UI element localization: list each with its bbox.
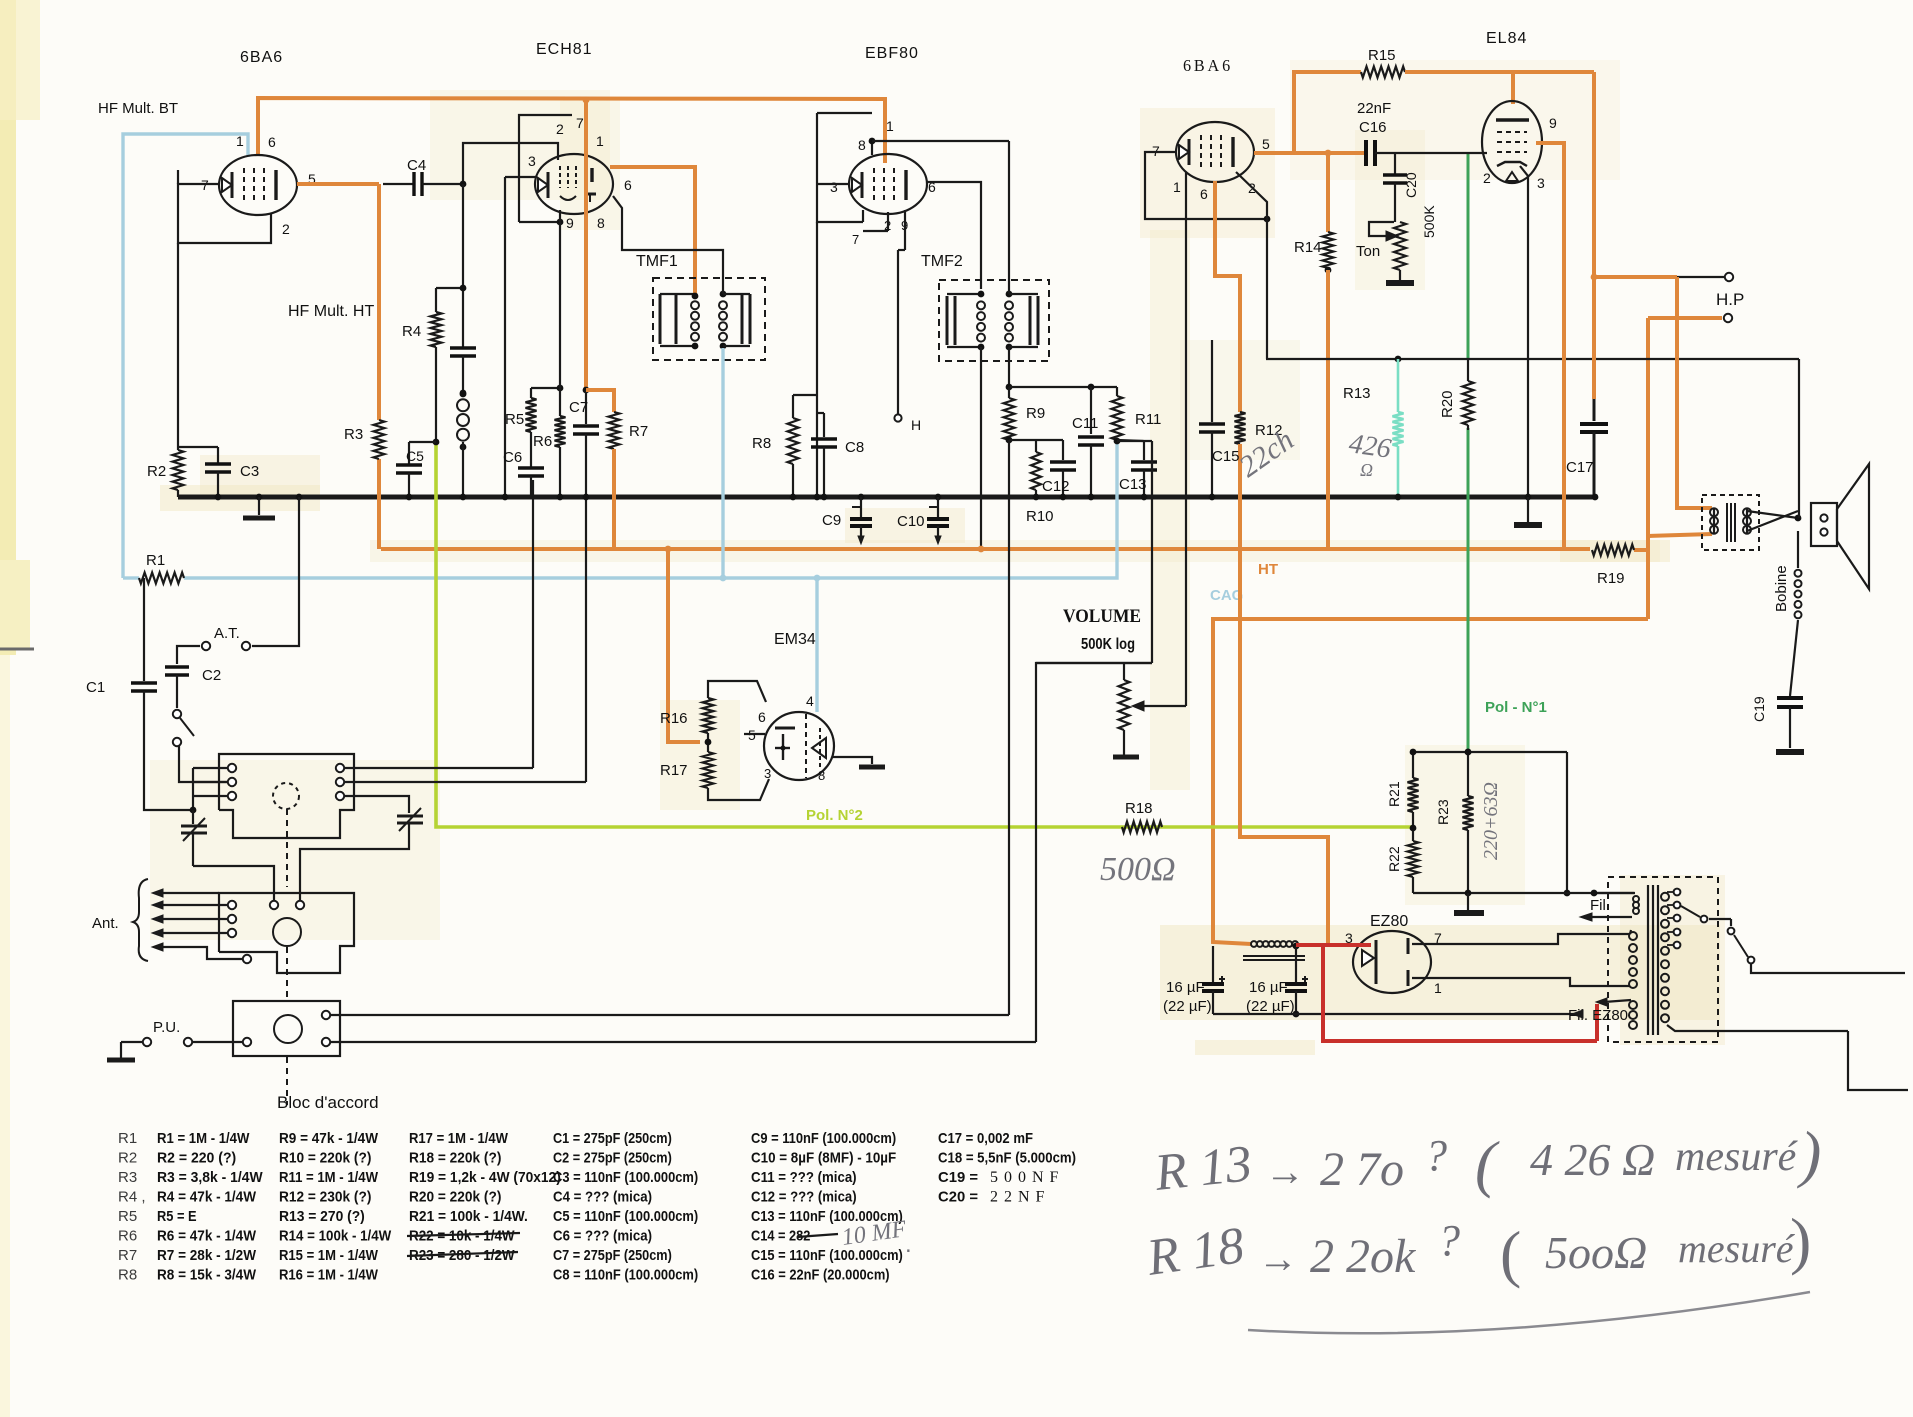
svg-text:C10: C10 xyxy=(897,513,925,530)
svg-text:3: 3 xyxy=(528,153,536,169)
svg-text:C1: C1 xyxy=(86,679,105,696)
svg-text:C18 = 5,5nF (5.000cm): C18 = 5,5nF (5.000cm) xyxy=(938,1150,1076,1167)
svg-text:500K log: 500K log xyxy=(1081,636,1135,653)
mains selector switch xyxy=(1681,906,1700,917)
resistor R4 xyxy=(436,287,463,289)
svg-text:R6: R6 xyxy=(533,433,552,450)
svg-text:C5 = 110nF (100.000cm): C5 = 110nF (100.000cm) xyxy=(553,1208,698,1225)
capacitor C11 xyxy=(1090,387,1092,434)
svg-text:R1: R1 xyxy=(146,552,165,569)
resistor R18 xyxy=(1122,822,1162,833)
voice coil Bobine xyxy=(1797,531,1799,568)
svg-text:C9 = 110nF (100.000cm): C9 = 110nF (100.000cm) xyxy=(751,1130,896,1147)
svg-text:C16 = 22nF (20.000cm): C16 = 22nF (20.000cm) xyxy=(751,1267,890,1284)
block1 left pins xyxy=(228,764,236,772)
svg-text:EBF80: EBF80 xyxy=(865,45,919,62)
TMF2 primary coil xyxy=(977,301,985,309)
wire TMF2 primary bottom to HT xyxy=(980,347,982,549)
svg-text:R10 = 220k (?): R10 = 220k (?) xyxy=(279,1150,371,1167)
wire blue to EM34 pin4 xyxy=(815,578,818,712)
svg-text:R7 = 28k - 1/2W: R7 = 28k - 1/2W xyxy=(157,1247,257,1264)
strikethrough R22 R23 C14 xyxy=(407,1233,520,1236)
volume pot xyxy=(1036,662,1152,664)
svg-text:C4: C4 xyxy=(407,157,426,174)
svg-text:6: 6 xyxy=(624,177,632,193)
svg-text:C17: C17 xyxy=(1566,459,1594,476)
svg-text:R15: R15 xyxy=(1368,47,1396,64)
capacitor C5 xyxy=(409,441,436,443)
svg-text:R17 = 1M - 1/4W: R17 = 1M - 1/4W xyxy=(409,1130,509,1147)
Ant brace xyxy=(133,879,148,961)
wire C1 bottom to tuner xyxy=(144,691,193,810)
resistor R22 xyxy=(1408,841,1419,877)
bottom rail of caps xyxy=(1213,1013,1580,1015)
svg-text:Fil.: Fil. xyxy=(1590,897,1610,914)
svg-text:R22: R22 xyxy=(1386,846,1402,872)
svg-text:ECH81: ECH81 xyxy=(536,41,593,58)
wire green to R21 rail xyxy=(1465,749,1472,756)
svg-text:C7 = 275pF (250cm): C7 = 275pF (250cm) xyxy=(553,1247,672,1264)
wire to block2 center pins xyxy=(193,866,274,900)
svg-text:R9 = 47k - 1/4W: R9 = 47k - 1/4W xyxy=(279,1130,379,1147)
ground bus xyxy=(178,495,1597,500)
capacitor C19 xyxy=(1777,696,1803,700)
Pol N1 green wire xyxy=(1467,153,1470,360)
svg-text:R6 = 47k - 1/4W: R6 = 47k - 1/4W xyxy=(157,1228,257,1245)
svg-text:?: ? xyxy=(1425,1131,1447,1180)
wire EM34 pin8 ground xyxy=(832,757,872,764)
svg-text:3: 3 xyxy=(1537,175,1545,191)
wire ECH81 grid from C4 xyxy=(463,143,558,184)
svg-text:?: ? xyxy=(1438,1216,1460,1265)
svg-text:C1 = 275pF (250cm): C1 = 275pF (250cm) xyxy=(553,1130,672,1147)
svg-text:R16 = 1M - 1/4W: R16 = 1M - 1/4W xyxy=(279,1267,379,1284)
svg-text:R12 = 230k (?): R12 = 230k (?) xyxy=(279,1189,371,1206)
svg-text:R5: R5 xyxy=(118,1208,137,1225)
output transformer primary coil xyxy=(1710,508,1718,516)
svg-text:mesuré: mesuré xyxy=(1678,1226,1796,1271)
svg-text:2 7o: 2 7o xyxy=(1320,1143,1404,1196)
svg-text:7: 7 xyxy=(576,115,584,131)
resistor R5 xyxy=(530,388,532,398)
svg-text:): ) xyxy=(1796,1118,1821,1189)
svg-text:9: 9 xyxy=(566,215,574,231)
oscillator coil xyxy=(460,390,467,397)
svg-text:500Ω: 500Ω xyxy=(1100,851,1176,888)
resistor R16 xyxy=(707,733,709,742)
wire pin9 column xyxy=(559,222,561,416)
right side down xyxy=(1566,752,1568,893)
tone pot ground xyxy=(1399,270,1401,280)
tube 6BA6 first xyxy=(219,155,297,215)
block1 right pins xyxy=(336,764,344,772)
svg-text:Bloc d'accord: Bloc d'accord xyxy=(277,1093,379,1112)
svg-text:8: 8 xyxy=(818,768,825,783)
wire TMF2 secondary top to EBF80 diode xyxy=(1008,141,1010,294)
capacitor C2 xyxy=(165,665,189,668)
output transformer secondary coil xyxy=(1743,508,1751,516)
svg-text:R14: R14 xyxy=(1294,239,1322,256)
transformer winding Fil xyxy=(1594,892,1634,894)
svg-text:R3 = 3,8k - 1/4W: R3 = 3,8k - 1/4W xyxy=(157,1169,263,1186)
PU ground xyxy=(120,1042,122,1058)
svg-text:R8: R8 xyxy=(118,1267,137,1284)
capacitor C15 xyxy=(1211,340,1213,422)
svg-text:C4 = ??? (mica): C4 = ??? (mica) xyxy=(553,1189,652,1206)
transformer winding HV xyxy=(1629,932,1637,940)
resistor R17 xyxy=(707,742,709,752)
highlight patches xyxy=(1140,108,1275,238)
electrolytic C first 16uF xyxy=(1212,946,1214,982)
svg-text:C20 =: C20 = xyxy=(938,1189,978,1206)
svg-text:220+63Ω: 220+63Ω xyxy=(1480,782,1502,860)
trimmer cap 1 xyxy=(192,810,194,824)
transformer mains winding xyxy=(1661,893,1669,901)
wire blue TMF1 secondary bottom xyxy=(721,348,724,578)
svg-text:EM34: EM34 xyxy=(774,631,816,648)
svg-text:C3 = 110nF (100.000cm): C3 = 110nF (100.000cm) xyxy=(553,1169,698,1186)
svg-text:C8 = 110nF (100.000cm): C8 = 110nF (100.000cm) xyxy=(553,1267,698,1284)
svg-text:R18 = 220k (?): R18 = 220k (?) xyxy=(409,1150,501,1167)
svg-text:.: . xyxy=(905,1231,912,1258)
resistor R12 xyxy=(1235,412,1246,444)
svg-text:HF Mult. BT: HF Mult. BT xyxy=(98,100,178,117)
HT bus orange xyxy=(381,547,1590,551)
svg-text:C19: C19 xyxy=(1751,696,1767,722)
svg-text:R23: R23 xyxy=(1435,799,1451,825)
wire orange ECH81 triode plate to TMF1 xyxy=(610,167,695,296)
svg-text:500K: 500K xyxy=(1421,205,1437,238)
resistor R9 xyxy=(1008,387,1010,398)
capacitor C16 xyxy=(1364,140,1368,166)
wire heater H xyxy=(898,249,905,251)
svg-text:C3: C3 xyxy=(240,463,259,480)
svg-text:5: 5 xyxy=(1262,136,1270,152)
resistor R20 xyxy=(1467,359,1469,381)
svg-text:R5 = E: R5 = E xyxy=(157,1208,197,1225)
capacitor C20 xyxy=(1383,173,1407,176)
wire C20 branch xyxy=(1394,153,1396,175)
trimmer cap 2 xyxy=(397,815,423,818)
svg-text:HT: HT xyxy=(1258,561,1278,578)
tube EL84 xyxy=(1482,101,1542,183)
wire orange HT corner to volume column xyxy=(1213,619,1648,944)
svg-text:R1: R1 xyxy=(118,1130,137,1147)
wire R5 R6 rail xyxy=(531,387,560,389)
wire orange EM34 supply xyxy=(665,546,672,553)
wire PU line xyxy=(192,1041,242,1043)
svg-text:5ooΩ: 5ooΩ xyxy=(1545,1227,1647,1278)
rail R10 C12 xyxy=(1009,439,1063,441)
resistor R13 teal xyxy=(1395,356,1402,363)
svg-text:C8: C8 xyxy=(845,439,864,456)
wire red to Fil EZ80 xyxy=(1595,1004,1599,1041)
svg-text:C20: C20 xyxy=(1403,172,1419,198)
Pol N2 line yellow-green xyxy=(436,444,1412,827)
wire EBF80 det to pot top xyxy=(1151,441,1153,663)
wire orange plate drop to HT with R3 xyxy=(377,184,381,420)
TMF2 primary cap xyxy=(946,296,949,345)
svg-text:4 26 Ω: 4 26 Ω xyxy=(1530,1134,1655,1185)
wire TMF1 secondary top to ECH81 xyxy=(613,196,723,294)
svg-text:mesuré: mesuré xyxy=(1675,1134,1799,1180)
svg-text:C7: C7 xyxy=(569,399,588,416)
svg-text:1: 1 xyxy=(886,118,894,134)
svg-text:(: ( xyxy=(1500,1218,1521,1289)
svg-text:2: 2 xyxy=(1483,170,1491,186)
svg-text:R8: R8 xyxy=(752,435,771,452)
svg-text:R 13: R 13 xyxy=(1151,1135,1254,1202)
wire C1 top xyxy=(143,578,145,681)
tuning block 1 outline xyxy=(219,754,354,838)
TMF2 secondary coil xyxy=(1005,301,1013,309)
volume wiper xyxy=(1140,705,1186,707)
wire orange R7 to HT xyxy=(612,449,616,549)
svg-text:C16: C16 xyxy=(1359,119,1387,136)
grey separator line left edge xyxy=(0,648,34,651)
svg-text:Ant.: Ant. xyxy=(92,915,119,932)
resistor R11 xyxy=(1116,387,1118,396)
wire detector output down xyxy=(1008,440,1010,1015)
wire orange HP top terminal xyxy=(1594,275,1677,279)
svg-text:R21 = 100k - 1/4W.: R21 = 100k - 1/4W. xyxy=(409,1208,528,1225)
svg-text:C13: C13 xyxy=(1119,476,1147,493)
svg-text:R4: R4 xyxy=(402,323,421,340)
switch A.T. xyxy=(242,642,250,650)
wire orange R19 to HP riser xyxy=(1634,548,1648,552)
band switch xyxy=(173,710,181,718)
svg-text:R7: R7 xyxy=(118,1247,137,1264)
resistor R1 xyxy=(139,573,184,584)
svg-text:8: 8 xyxy=(597,215,605,231)
ground at bus left xyxy=(256,494,263,501)
svg-text:Bobine: Bobine xyxy=(1773,565,1790,612)
wire EBF80 pin1 top xyxy=(871,141,873,155)
svg-text:1: 1 xyxy=(236,133,244,149)
TMF1 secondary coil xyxy=(719,301,727,309)
svg-text:4: 4 xyxy=(806,693,814,709)
svg-text:EL84: EL84 xyxy=(1486,30,1527,47)
block2 center pins xyxy=(270,901,278,909)
wire EBF80 cathode box xyxy=(817,183,850,185)
svg-text:7: 7 xyxy=(852,232,859,247)
svg-text:HF Mult. HT: HF Mult. HT xyxy=(288,303,374,320)
svg-text:H.P: H.P xyxy=(1716,290,1744,309)
svg-text:2: 2 xyxy=(556,121,564,137)
output transformer dashed box xyxy=(1702,495,1759,550)
svg-text:P.U.: P.U. xyxy=(153,1019,180,1036)
svg-text:1: 1 xyxy=(1434,980,1442,996)
svg-text:R13 = 270 (?): R13 = 270 (?) xyxy=(279,1208,365,1225)
resistor R2 xyxy=(173,450,184,490)
wire 6BA6#2 grid down to volume wiper xyxy=(1236,172,1267,219)
svg-text:R6: R6 xyxy=(118,1228,137,1245)
wire C4 node down xyxy=(462,184,464,347)
wire block3 to detector line xyxy=(330,1014,1009,1016)
svg-text:R20: R20 xyxy=(1439,390,1456,418)
svg-text:R2: R2 xyxy=(147,463,166,480)
svg-text:R5: R5 xyxy=(505,411,524,428)
capacitor C3 xyxy=(217,447,219,464)
resistor R19 xyxy=(1592,545,1634,556)
arrow on cap rail xyxy=(1572,1010,1583,1018)
svg-text:R20 = 220k (?): R20 = 220k (?) xyxy=(409,1189,501,1206)
wire orange EL84 plate drop xyxy=(1511,72,1515,104)
svg-text:6: 6 xyxy=(758,709,766,725)
block3 circle xyxy=(274,1015,302,1043)
Ant arrows xyxy=(158,904,227,906)
svg-text:R19 = 1,2k - 4W (70x12): R19 = 1,2k - 4W (70x12) xyxy=(409,1169,561,1186)
wire orange plate node down to C17 xyxy=(1592,277,1596,399)
wire C16 to EL84 grid xyxy=(1375,152,1487,154)
output transformer core xyxy=(1726,503,1728,542)
pencil underline xyxy=(1248,1292,1810,1333)
TMF1 primary cap xyxy=(675,294,678,344)
svg-text:R4 = 47k - 1/4W: R4 = 47k - 1/4W xyxy=(157,1189,257,1206)
block1 dashed circle xyxy=(273,783,299,809)
tube EZ80 xyxy=(1353,931,1431,993)
svg-text:R16: R16 xyxy=(660,710,688,727)
wire red EZ80 cathode xyxy=(1296,943,1371,947)
wire orange to R7 xyxy=(586,390,614,412)
handwritten note R13 measured xyxy=(1151,1118,1821,1202)
block2 left pins xyxy=(228,901,236,909)
wire pin3 of ECH81 xyxy=(505,176,536,178)
block3 pins xyxy=(243,1038,251,1046)
CAG line blue xyxy=(184,441,1117,578)
wires block1 left pins xyxy=(193,767,227,769)
svg-text:3: 3 xyxy=(830,179,838,195)
capacitor C12 xyxy=(1062,440,1064,460)
capacitor C1 xyxy=(131,681,157,684)
capacitor C13 xyxy=(1143,441,1145,460)
capacitor C6 xyxy=(530,432,532,468)
rail R9 R11 top xyxy=(1009,386,1117,388)
electrolytic C10 xyxy=(935,494,942,501)
resistor R14 xyxy=(1323,232,1334,268)
tone pot box arrow xyxy=(1369,222,1394,236)
wire EBF80 cathode column xyxy=(816,222,818,497)
wire cathode rail down xyxy=(1266,219,1268,359)
svg-text:R18: R18 xyxy=(1125,800,1153,817)
svg-text:R2 = 220 (?): R2 = 220 (?) xyxy=(157,1150,236,1167)
top rail R21 R23 xyxy=(1413,751,1567,753)
svg-text:C15 = 110nF (100.000cm): C15 = 110nF (100.000cm) xyxy=(751,1247,903,1264)
tuning block 2 outline xyxy=(219,893,354,973)
transformer winding Fil EZ80 xyxy=(1629,1001,1637,1009)
svg-text:16 µF: 16 µF xyxy=(1166,979,1205,996)
svg-text:(: ( xyxy=(1475,1128,1500,1199)
mains bottom wire xyxy=(1667,1025,1848,1031)
wire left column to R2 xyxy=(177,243,179,450)
svg-text:R3: R3 xyxy=(118,1169,137,1186)
svg-text:9: 9 xyxy=(1549,115,1557,131)
resistor R7 xyxy=(609,412,620,449)
wire orange pin5 row xyxy=(1254,151,1366,155)
svg-text:→: → xyxy=(1265,1150,1305,1194)
svg-text:C9: C9 xyxy=(822,512,841,529)
svg-text:C19 =: C19 = xyxy=(938,1169,978,1186)
tube ECH81 xyxy=(535,154,613,214)
svg-text:R13: R13 xyxy=(1343,385,1371,402)
wire orange HT to transformer return xyxy=(1648,534,1712,536)
svg-text:R10: R10 xyxy=(1026,508,1054,525)
wire pin7 cathode box xyxy=(178,184,271,243)
svg-text:TMF1: TMF1 xyxy=(636,253,678,270)
resistor R8 xyxy=(793,394,817,396)
wire A.T. branch from bus xyxy=(296,494,303,501)
svg-text:C12: C12 xyxy=(1042,478,1070,495)
resistor R6 xyxy=(555,416,566,447)
TMF2 secondary cap xyxy=(1029,296,1032,345)
svg-text:Pol - N°1: Pol - N°1 xyxy=(1485,699,1547,716)
resistor R3 xyxy=(374,420,385,459)
wire orange HP bottom terminal xyxy=(1648,316,1722,320)
wire orange pin5 of 6BA6 first xyxy=(297,182,379,186)
wire orange HP riser x=1648 xyxy=(1646,318,1650,619)
capacitor C17 xyxy=(1593,399,1596,421)
resistor R15 xyxy=(1361,67,1405,78)
speaker wires crossed xyxy=(1713,508,1715,534)
svg-text:C11: C11 xyxy=(1072,415,1098,432)
TMF1 primary top/bottom xyxy=(660,293,695,295)
wire blue CAG to 6BA6 grid xyxy=(123,134,248,578)
smoothing choke xyxy=(1251,941,1257,947)
svg-text:EZ80: EZ80 xyxy=(1370,913,1408,930)
electrolytic C second 16uF xyxy=(1293,943,1300,950)
svg-text:6BA6: 6BA6 xyxy=(240,49,283,66)
tone pot 500K xyxy=(1394,222,1406,270)
wire C2 to band switch xyxy=(176,675,178,708)
electrolytic C9 xyxy=(858,494,865,501)
svg-text:2 2ok: 2 2ok xyxy=(1310,1230,1417,1283)
tube EM34 xyxy=(764,712,834,780)
svg-text:(22 µF): (22 µF) xyxy=(1246,998,1295,1015)
svg-text:R14 = 100k - 1/4W: R14 = 100k - 1/4W xyxy=(279,1228,392,1245)
svg-text:A.T.: A.T. xyxy=(214,625,240,642)
wire orange to R15 xyxy=(1294,72,1361,153)
svg-text:VOLUME: VOLUME xyxy=(1063,606,1141,627)
resistor R21 xyxy=(1412,752,1414,778)
svg-text:C5: C5 xyxy=(406,448,424,464)
svg-text:R4 ,: R4 , xyxy=(118,1189,146,1206)
svg-text:TMF2: TMF2 xyxy=(921,253,963,270)
wire orange 6BA6 plate to EBF80 top xyxy=(258,98,885,163)
ground under R23 xyxy=(1465,890,1472,897)
svg-text:R3: R3 xyxy=(344,426,363,443)
svg-text:R1 = 1M - 1/4W: R1 = 1M - 1/4W xyxy=(157,1130,250,1147)
wire orange R12 down to EZ80 node xyxy=(1240,444,1328,944)
svg-text:C10 = 8µF (8MF) - 10µF: C10 = 8µF (8MF) - 10µF xyxy=(751,1150,896,1167)
capacitor C4 xyxy=(383,183,414,185)
svg-text:1: 1 xyxy=(1173,179,1181,195)
svg-text:Ω: Ω xyxy=(1360,460,1373,480)
TMF1 primary coil xyxy=(691,301,699,309)
wire box ECH81 pins 2-9 xyxy=(519,115,572,222)
left edge yellow strip xyxy=(0,0,16,655)
wire orange R15 right to EL84 plate xyxy=(1405,70,1594,74)
wire EM34 pin5 stub xyxy=(744,733,765,735)
capacitor C7 xyxy=(583,387,590,394)
svg-text:8: 8 xyxy=(858,137,866,153)
tube EBF80 xyxy=(849,154,927,214)
svg-text:C6 = ??? (mica): C6 = ??? (mica) xyxy=(553,1228,652,1245)
svg-text:5 0 0 N F: 5 0 0 N F xyxy=(990,1169,1059,1186)
capacitor C8 xyxy=(817,412,824,414)
speaker cone xyxy=(1837,464,1869,589)
TMF2 dashed box xyxy=(939,280,1049,361)
resistor R10 xyxy=(1035,440,1037,452)
